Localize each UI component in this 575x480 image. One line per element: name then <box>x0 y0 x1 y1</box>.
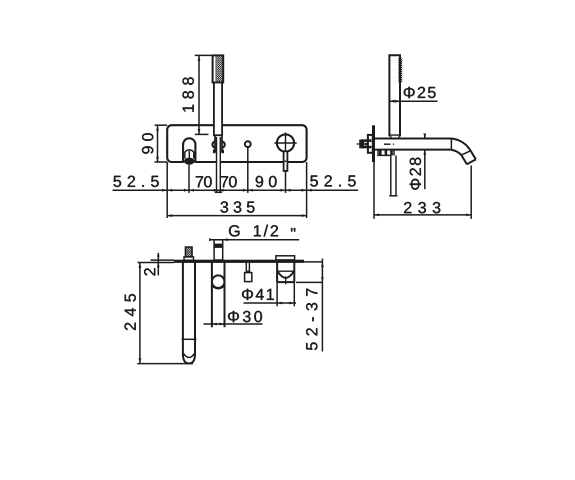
mixer handle rosette <box>277 134 294 151</box>
wall plate (side, filled) <box>372 125 375 162</box>
shower hose (front) <box>217 137 221 192</box>
phi25 dim <box>389 100 437 102</box>
shower nose taper <box>390 135 401 139</box>
hand shower tube (below) <box>182 263 184 355</box>
90 dim extensions <box>155 124 168 126</box>
tube centerline dash <box>384 143 391 145</box>
188 text (rotated) <box>183 77 194 111</box>
G 1/2 fitting <box>214 240 223 260</box>
hand shower handle (front) <box>214 83 222 136</box>
holder bracket (side) <box>378 150 394 156</box>
G 1/2 dim <box>211 239 299 241</box>
2 dim <box>157 253 159 275</box>
spout tube (side) <box>375 138 451 140</box>
335 dim line <box>167 215 306 217</box>
knurled hose connector <box>184 257 194 260</box>
hand shower (side) <box>389 55 400 135</box>
245 dim <box>139 263 141 363</box>
90 text (rotated) <box>142 133 153 154</box>
spout elbow & mouth <box>451 139 470 151</box>
90 dim line <box>157 125 159 162</box>
tub spout (front) <box>183 138 195 163</box>
inlet nut / threaded pipe <box>357 139 372 148</box>
chain dimension line <box>113 189 359 191</box>
188 dim extension bottom <box>195 133 209 135</box>
diverter knob <box>245 141 251 147</box>
holder ring ellipse <box>212 141 224 149</box>
plate bar <box>174 260 304 263</box>
spout from below <box>276 256 295 260</box>
chain arrows <box>162 189 311 192</box>
phi30 dim <box>204 323 263 325</box>
wall plate front <box>167 125 306 162</box>
chain texts <box>114 176 159 187</box>
holder neck <box>215 135 222 151</box>
plate edge extensions down to 335 line <box>166 162 168 218</box>
hand shower head (front) <box>213 55 224 82</box>
handle lever <box>284 151 288 171</box>
188 dim line <box>198 56 200 134</box>
mixer body tube below <box>211 263 213 328</box>
diverter plug below <box>245 263 247 273</box>
phi28 dim <box>424 134 426 139</box>
holder clamp nubs <box>213 150 216 154</box>
233 dim <box>373 162 375 219</box>
188 dim extension top <box>195 54 213 56</box>
spout center extension <box>188 165 190 193</box>
hose (side) <box>391 155 396 195</box>
52-37 dim <box>304 261 322 263</box>
phi41 dim <box>276 282 278 306</box>
washer behind plate <box>368 135 373 153</box>
